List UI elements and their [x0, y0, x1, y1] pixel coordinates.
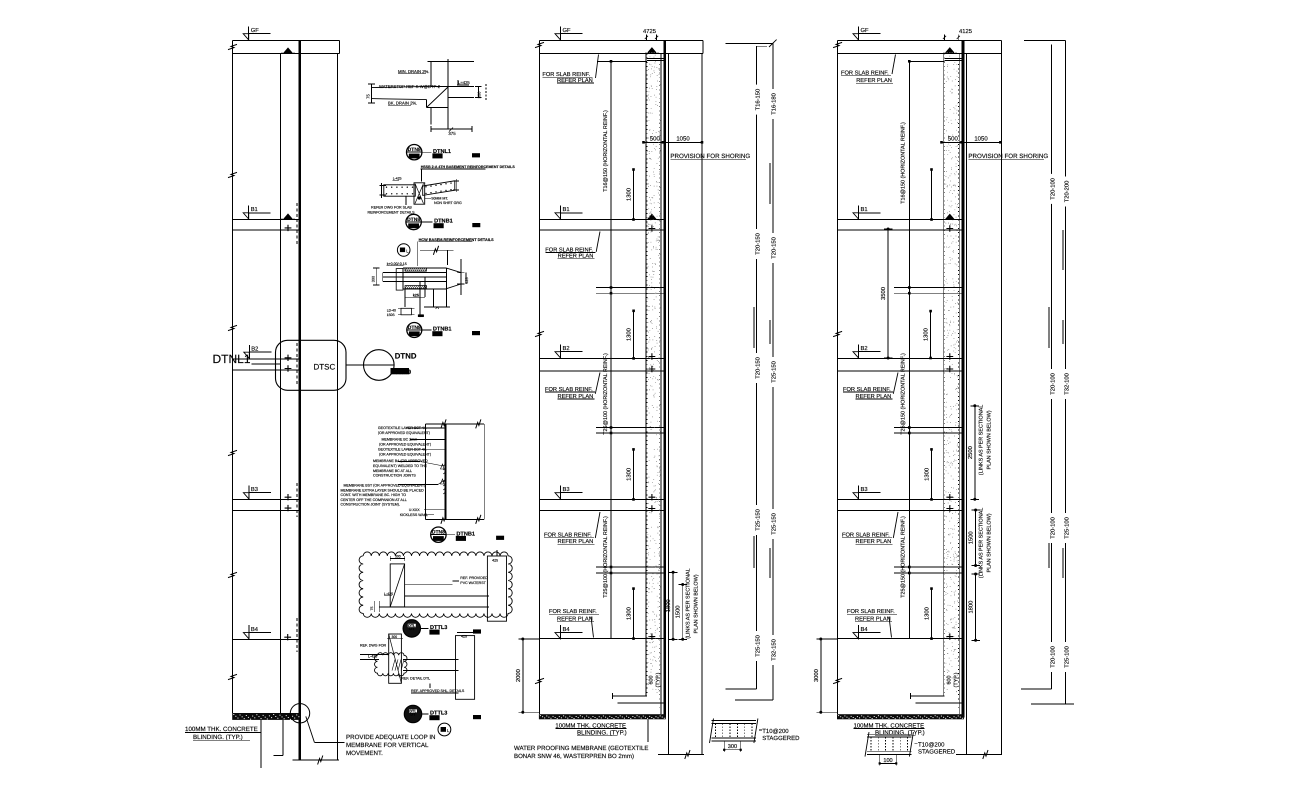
- svg-text:B4: B4: [563, 627, 571, 633]
- svg-text:375: 375: [448, 131, 456, 136]
- svg-text:(LINKS AS PER SECTIONAL: (LINKS AS PER SECTIONAL: [979, 405, 985, 475]
- svg-text:B4: B4: [251, 627, 259, 633]
- joint pair right 3: [894, 566, 962, 568]
- right wall outer edge: [837, 41, 839, 715]
- svg-text:MIN. DRAIN 2%.: MIN. DRAIN 2%.: [398, 69, 429, 74]
- svg-text:DTN8: DTN8: [432, 530, 445, 536]
- svg-text:GF: GF: [563, 27, 572, 34]
- svg-text:k+0.00/-0.15: k+0.00/-0.15: [387, 262, 407, 266]
- small beam section detail right bottom: [865, 732, 956, 766]
- svg-text:REFER DWG FOR SLAB: REFER DWG FOR SLAB: [371, 206, 412, 210]
- svg-text:T16-180: T16-180: [771, 93, 778, 115]
- svg-text:4725: 4725: [643, 28, 656, 35]
- svg-text:REF. PROVIDED: REF. PROVIDED: [460, 576, 488, 580]
- detail callout bubble DTTL3: [404, 705, 481, 722]
- note: FOR SLAB REINF. REFER PLAN: [842, 512, 898, 545]
- svg-text:T20-100: T20-100: [1049, 517, 1056, 539]
- svg-text:300: 300: [392, 635, 398, 639]
- svg-text:B3: B3: [861, 486, 868, 493]
- svg-text:1300: 1300: [924, 607, 931, 620]
- dim 1300 right #3: [931, 449, 933, 499]
- level marker GF: [853, 26, 881, 40]
- wall core stipple middle: [648, 55, 661, 692]
- svg-text:GF: GF: [251, 27, 260, 34]
- svg-text:BK. DRAIN 2%.: BK. DRAIN 2%.: [388, 101, 417, 106]
- svg-text:CONSTRUCTION JOINTS: CONSTRUCTION JOINTS: [373, 474, 416, 478]
- lines under blinding: [260, 720, 262, 768]
- svg-text:BONAR SNW 46, WASTERPREN BO 2m: BONAR SNW 46, WASTERPREN BO 2mm): [514, 753, 634, 760]
- svg-text:T25-100: T25-100: [1063, 517, 1070, 539]
- svg-text:PROVISION FOR SHORING: PROVISION FOR SHORING: [968, 153, 1048, 160]
- level marker B3: [853, 485, 881, 499]
- B1 slab left: [233, 218, 300, 220]
- break marks left wall: [228, 44, 237, 49]
- svg-text:T32-150: T32-150: [771, 639, 778, 661]
- level marker B3: [555, 485, 583, 499]
- svg-text:3000: 3000: [813, 669, 820, 682]
- right top slab: [838, 40, 1002, 42]
- middle reference line: [610, 61, 612, 638]
- svg-text:PVC WATERST: PVC WATERST: [460, 581, 486, 585]
- svg-text:T25-100: T25-100: [1063, 646, 1070, 668]
- B1 slab right: [838, 219, 962, 221]
- detail callout bubble DTNL1: [407, 145, 481, 160]
- svg-text:k25: k25: [413, 293, 419, 297]
- kicker lines: [647, 58, 664, 60]
- lap splice marks: [769, 163, 771, 204]
- level marker B2: [244, 345, 271, 359]
- membrane thick line: [444, 424, 446, 519]
- DETAIL 3 : wall base / raft detail: [372, 238, 494, 318]
- svg-text:425: 425: [461, 635, 467, 639]
- svg-text:300: 300: [477, 91, 482, 98]
- svg-text:1300: 1300: [626, 188, 633, 201]
- svg-text:T25-150: T25-150: [754, 509, 761, 531]
- svg-text:U-XXX: U-XXX: [409, 508, 421, 512]
- concrete blinding bar left: [232, 713, 299, 720]
- svg-text:50MM MT.: 50MM MT.: [431, 196, 448, 200]
- wall right face: [337, 54, 339, 761]
- raft steps below B4 right: [911, 695, 945, 697]
- svg-text:75: 75: [370, 607, 374, 611]
- B1 slab middle: [540, 219, 664, 221]
- svg-text:T25-150: T25-150: [771, 361, 778, 383]
- svg-text:B4: B4: [861, 627, 869, 633]
- svg-text:T25@150 (HORIZONTAL REINF.): T25@150 (HORIZONTAL REINF.): [901, 516, 907, 598]
- right wall left face (dotted): [944, 54, 946, 697]
- middle wall outer edge: [539, 41, 541, 715]
- bar labels middle: [752, 85, 761, 115]
- svg-text:KICKLESS WALL: KICKLESS WALL: [400, 513, 428, 517]
- bar labels right: [1047, 174, 1056, 204]
- svg-text:75: 75: [366, 94, 371, 99]
- dim 2000 right left side: [820, 639, 822, 712]
- svg-text:DTN8: DTN8: [408, 147, 421, 153]
- B4 slab line right: [838, 638, 963, 640]
- svg-text:B1: B1: [251, 207, 258, 213]
- svg-text:B2: B2: [861, 345, 868, 352]
- membrane dash B1: [296, 203, 298, 245]
- dim 1300 #4: [633, 589, 635, 639]
- svg-text:L-425: L-425: [393, 176, 402, 180]
- svg-text:1500: 1500: [968, 531, 975, 544]
- svg-text:T10@200: T10@200: [918, 741, 945, 748]
- svg-text:(LINKS AS PER SECTIONAL: (LINKS AS PER SECTIONAL: [686, 568, 692, 638]
- svg-text:DTND: DTND: [395, 352, 417, 361]
- svg-text:T16@150 (HORIZONTAL REINF.): T16@150 (HORIZONTAL REINF.): [901, 122, 907, 204]
- level marker B2: [853, 344, 881, 358]
- svg-text:PLAN SHOWN BELOW): PLAN SHOWN BELOW): [694, 574, 700, 633]
- wall outer face line: [232, 41, 234, 714]
- svg-text:HSSB 2-A 4TH BASEMENT REINFORC: HSSB 2-A 4TH BASEMENT REINFORCEMENT DETA…: [421, 165, 516, 169]
- small circle NL bottom: [438, 723, 451, 736]
- raft steps below B4: [613, 695, 647, 697]
- detail callout bubble DTNB1: [431, 527, 504, 542]
- vertical bar line A right: [1051, 45, 1053, 689]
- lap splice marks right: [1062, 230, 1064, 270]
- middle top slab: [540, 40, 704, 42]
- DETAIL 5 : revision cloud corner detail: [359, 550, 512, 621]
- dim 1300 #2: [633, 311, 635, 359]
- small beam section detail middle bottom: [710, 719, 801, 753]
- note: FOR SLAB REINF. REFER PLAN: [545, 232, 600, 260]
- reinf line at top: [597, 60, 647, 62]
- svg-text:T20-200: T20-200: [1063, 181, 1070, 203]
- dim 1500 + links right lower: [975, 510, 977, 566]
- level marker B1: [853, 205, 881, 219]
- protection line: [668, 54, 670, 755]
- svg-text:1800: 1800: [968, 601, 975, 614]
- svg-text:NON SHRT GRG: NON SHRT GRG: [434, 201, 462, 205]
- dim 1800 right: [975, 574, 977, 640]
- svg-text:PROVISION FOR SHORING: PROVISION FOR SHORING: [670, 153, 750, 160]
- svg-text:425: 425: [492, 559, 498, 563]
- dim 3500: [887, 229, 889, 358]
- svg-text:1050: 1050: [974, 136, 988, 143]
- joint pair 2: [596, 427, 663, 429]
- note: FOR SLAB REINF. REFER PLAN: [841, 55, 896, 85]
- right wall right face: [959, 54, 961, 715]
- note: FOR SLAB REINF. REFER PLAN: [545, 373, 600, 400]
- vertical bar line B right: [1065, 40, 1067, 704]
- svg-text:CENTER OFF THE COMPANION AT AL: CENTER OFF THE COMPANION AT ALL: [341, 498, 407, 502]
- dim 2000 left: [522, 639, 524, 712]
- DETAIL 1 : slab/wall junction: [366, 59, 487, 136]
- svg-text:MEMBRANE BC AT ALL: MEMBRANE BC AT ALL: [373, 469, 412, 473]
- svg-text:EQUIVALENT) WELDED TO THE: EQUIVALENT) WELDED TO THE: [373, 464, 428, 468]
- svg-text:300: 300: [728, 744, 737, 750]
- svg-text:(OR APPROVED EQUIVALENT): (OR APPROVED EQUIVALENT): [379, 442, 431, 446]
- small circle NL: [397, 244, 410, 257]
- joint pair right 1: [894, 287, 962, 289]
- svg-text:1800: 1800: [665, 599, 672, 612]
- svg-text:WATERSTOP REF S-W@DTP-2: WATERSTOP REF S-W@DTP-2: [379, 84, 441, 89]
- dims 1800 / 1500 + links note: [672, 572, 674, 639]
- svg-text:B3: B3: [563, 486, 570, 493]
- svg-text:B3: B3: [251, 486, 258, 493]
- balloon at wall toe: [290, 704, 309, 723]
- level marker B4: [243, 625, 271, 639]
- svg-text:2000: 2000: [515, 669, 522, 682]
- svg-text:DTL: DTL: [408, 624, 416, 628]
- dim 500/1050 + shoring note: [644, 141, 703, 143]
- svg-text:4125: 4125: [959, 28, 972, 35]
- vertical bar line A middle: [756, 46, 758, 689]
- svg-text:DTNL1: DTNL1: [213, 352, 251, 366]
- svg-text:(TYP.): (TYP.): [954, 672, 960, 687]
- level marker B3: [243, 485, 271, 499]
- callout circle DTND: [346, 364, 364, 366]
- B3 slab left: [233, 498, 299, 500]
- leader to membrane note: [306, 716, 315, 742]
- svg-text:PLAN SHOWN BELOW): PLAN SHOWN BELOW): [987, 513, 993, 572]
- svg-text:CONT. WITH MEMBRANE BC. HIGH T: CONT. WITH MEMBRANE BC. HIGH TO: [341, 493, 407, 497]
- svg-text:300: 300: [395, 555, 401, 559]
- detail callout bubble DTNB1: [406, 214, 480, 229]
- right side slab of detail 1: [448, 85, 474, 87]
- svg-text:DTSC: DTSC: [314, 363, 336, 372]
- svg-text:T25-150: T25-150: [771, 513, 778, 535]
- level marker GF: [243, 26, 271, 40]
- svg-text:1300: 1300: [626, 468, 633, 481]
- svg-text:T25@100 (HORIZONTAL REINF.): T25@100 (HORIZONTAL REINF.): [603, 516, 609, 598]
- svg-text:WATER PROOFING MEMBRANE (GEOTE: WATER PROOFING MEMBRANE (GEOTEXTILE: [514, 745, 648, 752]
- right shoring line: [1001, 54, 1003, 755]
- svg-text:B1: B1: [563, 207, 570, 213]
- svg-text:1050: 1050: [676, 136, 690, 143]
- right protection line: [966, 54, 968, 755]
- dim 1300 right #4: [931, 589, 933, 639]
- svg-text:150S: 150S: [387, 313, 396, 317]
- svg-text:STAGGERED: STAGGERED: [762, 735, 800, 742]
- middle wall right face: [660, 54, 662, 715]
- note: FOR SLAB REINF. REFER PLAN: [549, 609, 599, 638]
- svg-text:DTN8: DTN8: [407, 217, 420, 223]
- svg-text:300: 300: [372, 276, 376, 282]
- svg-text:1300: 1300: [923, 328, 930, 341]
- joint pair right 2: [894, 427, 962, 429]
- svg-text:T20-150: T20-150: [754, 233, 761, 255]
- GF level triangle symbol: [283, 47, 293, 53]
- svg-text:REF. DETAIL DTL: REF. DETAIL DTL: [401, 676, 430, 680]
- joint pair 1: [596, 287, 663, 289]
- svg-text:B2: B2: [251, 345, 258, 352]
- svg-text:500: 500: [948, 136, 959, 143]
- level marker GF: [555, 26, 583, 40]
- svg-text:DTN8: DTN8: [408, 325, 421, 331]
- svg-text:T20-100: T20-100: [1049, 373, 1056, 395]
- svg-text:600: 600: [649, 676, 655, 685]
- left wall section: [233, 41, 340, 761]
- svg-text:T25@150 (HORIZONTAL REINF.): T25@150 (HORIZONTAL REINF.): [901, 353, 907, 435]
- wall inner line: [279, 54, 281, 714]
- svg-text:1300: 1300: [924, 468, 931, 481]
- svg-text:100: 100: [883, 758, 892, 764]
- level marker B4: [555, 625, 583, 639]
- svg-text:1500: 1500: [675, 605, 682, 618]
- dim 1300 #1: [633, 170, 635, 220]
- level marker B1: [243, 205, 271, 219]
- svg-text:425: 425: [465, 277, 469, 283]
- svg-text:T20-100: T20-100: [1049, 646, 1056, 668]
- B2 slab right: [838, 357, 962, 359]
- svg-text:(LINKS AS PER SECTIONAL: (LINKS AS PER SECTIONAL: [979, 508, 985, 578]
- joint pair 3: [596, 566, 663, 568]
- svg-text:MEMBRANE EXTRA LAYER SHOULD BE: MEMBRANE EXTRA LAYER SHOULD BE PLACED: [341, 488, 425, 492]
- dim 1300 #3: [633, 449, 635, 499]
- level marker B4: [853, 625, 881, 639]
- svg-text:T25-150: T25-150: [754, 635, 761, 657]
- middle membrane thick: [663, 41, 666, 718]
- svg-text:T16@150 (HORIZONTAL REINF.): T16@150 (HORIZONTAL REINF.): [603, 110, 609, 192]
- svg-text:MEMBRANE BST (OR APPROVED EQUI: MEMBRANE BST (OR APPROVED EQUIVALENT): [344, 484, 426, 488]
- svg-text:PLAN SHOWN BELOW): PLAN SHOWN BELOW): [987, 410, 993, 469]
- svg-text:(OR APPROVED EQUIVALENT): (OR APPROVED EQUIVALENT): [378, 431, 430, 435]
- svg-text:B1: B1: [861, 207, 868, 213]
- B2 slab left: [233, 358, 300, 360]
- DETAIL 2 : slab joint with waterstop: [368, 165, 516, 214]
- shoring zone line: [701, 54, 703, 755]
- svg-text:MOVEMENT.: MOVEMENT.: [346, 750, 383, 757]
- svg-text:REF. APPROVED SHL. DETAILS: REF. APPROVED SHL. DETAILS: [411, 689, 465, 693]
- svg-text:600: 600: [947, 676, 953, 685]
- svg-text:(OR APPROVED EQUIVALENT): (OR APPROVED EQUIVALENT): [379, 452, 431, 456]
- svg-text:GF: GF: [861, 27, 870, 34]
- dim 1300 right #2: [930, 311, 932, 358]
- bottom raft line middle: [658, 754, 704, 756]
- svg-text:T20-150: T20-150: [771, 237, 778, 259]
- svg-text:REF. DWG FOR: REF. DWG FOR: [360, 644, 387, 648]
- svg-text:2500: 2500: [967, 446, 974, 459]
- svg-text:T20-100: T20-100: [1049, 178, 1056, 200]
- svg-text:3500: 3500: [880, 287, 887, 300]
- svg-text:T25@100 (HORIZONTAL REINF.): T25@100 (HORIZONTAL REINF.): [603, 353, 609, 435]
- svg-text:(TYP.): (TYP.): [656, 672, 662, 687]
- right membrane thick: [962, 41, 965, 718]
- bottom raft line right: [956, 754, 1002, 756]
- note: FOR SLAB REINF. REFER PLAN: [542, 55, 598, 84]
- waterproofing membrane thick line: [298, 41, 301, 761]
- dim 500/1050 right + shoring: [942, 141, 1001, 143]
- detail callout bubble DTTL3: [403, 620, 481, 637]
- DETAIL 4 : membrane layers at wall: [341, 419, 485, 523]
- dim 1300 right #1: [931, 170, 933, 220]
- note: FOR SLAB REINF. REFER PLAN: [843, 373, 898, 400]
- bottom raft line left: [293, 759, 339, 761]
- detail callout bubble DTNB1: [407, 323, 480, 338]
- svg-text:PROVIDE ADEQUATE LOOP IN: PROVIDE ADEQUATE LOOP IN: [346, 734, 436, 741]
- svg-text:L=425: L=425: [458, 80, 470, 85]
- dim 2500 + links right: [974, 406, 976, 500]
- svg-text:1300: 1300: [626, 328, 633, 341]
- svg-text:REINFORCEMENT DETAILS: REINFORCEMENT DETAILS: [368, 210, 416, 214]
- svg-text:T10@200: T10@200: [762, 728, 789, 735]
- B4 slab line left: [233, 638, 300, 640]
- svg-text:MEMBRANE FOR VERTICAL: MEMBRANE FOR VERTICAL: [346, 742, 429, 749]
- right kicker lines: [945, 58, 962, 60]
- svg-text:CONSTRUCTION JOINT (SYSTEM).: CONSTRUCTION JOINT (SYSTEM).: [341, 503, 400, 507]
- note: FOR SLAB REINF. REFER PLAN: [544, 512, 600, 545]
- svg-text:DTL: DTL: [409, 710, 417, 714]
- middle wall left face (dotted): [646, 54, 648, 697]
- svg-text:FTW#9: FTW#9: [391, 370, 409, 376]
- svg-text:450: 450: [418, 314, 424, 318]
- svg-text:T32-100: T32-100: [1063, 373, 1070, 395]
- svg-text:1300: 1300: [626, 607, 633, 620]
- detail box DTSC: [276, 340, 347, 390]
- svg-text:500: 500: [650, 136, 661, 143]
- top slab GF left: [233, 40, 340, 42]
- B4 slab line middle: [540, 638, 665, 640]
- DETAIL 6 : membrane loop at raft edge: [360, 633, 475, 700]
- blinding bar middle: [539, 714, 666, 719]
- B3 slab right: [838, 498, 962, 500]
- svg-text:T16-150: T16-150: [754, 89, 761, 111]
- svg-text:STAGGERED: STAGGERED: [918, 748, 956, 755]
- note: FOR SLAB REINF. REFER PLAN: [847, 609, 897, 638]
- B2 slab middle: [540, 357, 664, 359]
- vertical bar line B middle: [772, 43, 774, 700]
- level marker B2: [555, 344, 583, 358]
- level marker B1: [555, 205, 583, 219]
- B3 slab middle: [540, 498, 664, 500]
- svg-text:B2: B2: [563, 345, 570, 352]
- blinding bar right: [837, 714, 964, 719]
- right reference line: [908, 61, 910, 638]
- svg-text:T20-150: T20-150: [754, 357, 761, 379]
